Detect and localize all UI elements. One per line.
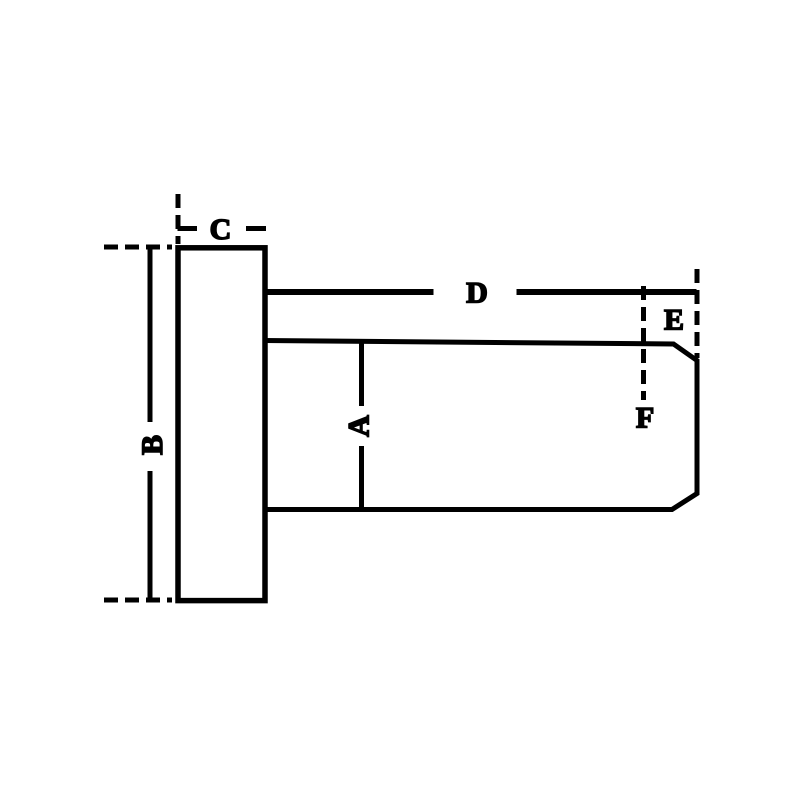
- svg-text:A: A: [343, 415, 376, 437]
- svg-text:F: F: [636, 402, 654, 435]
- svg-text:C: C: [210, 213, 232, 246]
- svg-text:B: B: [136, 435, 169, 455]
- svg-text:E: E: [664, 304, 684, 337]
- svg-text:D: D: [466, 277, 488, 310]
